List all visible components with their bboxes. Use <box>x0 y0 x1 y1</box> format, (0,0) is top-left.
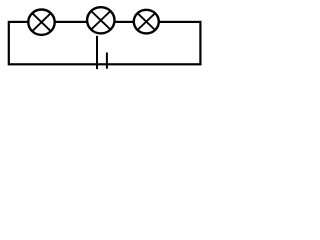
lamp L1 <box>28 10 54 35</box>
wire (outer rectangular loop: top, right, bottom, left segments) <box>9 22 201 64</box>
battery B1 short plate (negative terminal) <box>106 53 108 69</box>
battery B1 long plate (positive terminal, extends up toward lamp 2) <box>96 36 98 69</box>
lamp L3 <box>134 10 159 34</box>
lamp L2 <box>87 7 114 33</box>
